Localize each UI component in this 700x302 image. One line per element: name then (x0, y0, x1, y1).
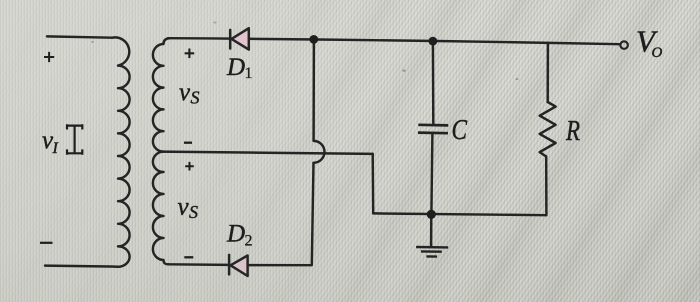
plus sign secondary bottom (185, 162, 194, 171)
wire R top lead (546, 43, 549, 102)
wire ground stem (430, 215, 433, 247)
svg-text:S: S (189, 202, 198, 222)
wire R bottom lead (545, 157, 548, 216)
dust speck (214, 22, 217, 24)
svg-text:C: C (452, 115, 468, 146)
inductor primary winding (112, 37, 130, 266)
svg-text:D: D (226, 54, 245, 81)
svg-text:v: v (178, 194, 190, 221)
svg-text:S: S (191, 88, 200, 108)
wire crossover hop (314, 141, 325, 163)
node junction dot bottom rail (427, 210, 436, 219)
inductor secondary winding (center-tapped) (153, 38, 170, 264)
minus sign secondary top (184, 142, 192, 144)
svg-text:1: 1 (245, 65, 253, 82)
wire center tap horizontal (161, 152, 373, 154)
dust speck (91, 41, 94, 43)
plus sign secondary top (185, 49, 195, 59)
dust speck (402, 70, 405, 72)
wire C top lead (432, 41, 435, 124)
diode D2 (229, 255, 248, 276)
wire primary top (47, 36, 112, 37)
diode D1 (230, 28, 249, 49)
wire center tap down (371, 154, 374, 214)
svg-text:R: R (565, 115, 580, 147)
wire vertical from top junction to hop (312, 40, 315, 141)
svg-text:D: D (226, 221, 245, 248)
output terminal circle (620, 41, 628, 49)
wire D2 to right corner and up (249, 163, 314, 265)
svg-text:O: O (652, 45, 663, 61)
wire bottom rail (373, 213, 546, 215)
svg-text:I: I (52, 140, 59, 157)
resistor R zigzag (540, 102, 556, 157)
dust speck (516, 78, 519, 80)
wire top rail (secondary top through D1 to output) (168, 38, 619, 44)
source symbol I-beam (67, 124, 83, 155)
minus sign primary (40, 242, 53, 244)
svg-text:2: 2 (245, 233, 253, 250)
node junction dot C top (429, 37, 438, 46)
wire secondary bottom to D2 (169, 263, 229, 266)
node junction dot top-left (309, 35, 318, 44)
wire C bottom lead (431, 134, 432, 213)
plus sign primary (44, 52, 54, 62)
capacitor C plates (418, 125, 448, 133)
minus sign secondary bottom (184, 256, 193, 258)
wire primary bottom (45, 266, 118, 267)
ground (416, 247, 448, 257)
svg-text:v: v (179, 79, 191, 106)
